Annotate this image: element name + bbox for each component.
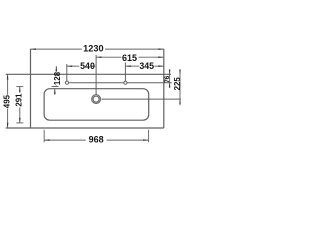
- dim 495 line: [7, 74, 9, 94]
- arrow 76 top outside: [169, 70, 171, 75]
- svg-text:225: 225: [173, 77, 182, 91]
- inner bowl rounded rect: [44, 89, 149, 121]
- arrow 345 left: [125, 65, 130, 67]
- tap hole outer circle: [92, 95, 101, 104]
- svg-text:968: 968: [89, 135, 104, 145]
- basin outer top edge with side extensions: [6, 73, 171, 75]
- basin left edge extended up to 1230 dim: [30, 49, 32, 128]
- basin outer bottom edge with left extension: [6, 127, 164, 129]
- arrow 968 left: [44, 139, 49, 141]
- right hole dropline: [124, 63, 126, 82]
- basin right edge extended up to 1230 dim: [163, 49, 165, 128]
- arrow 291 top: [19, 87, 21, 92]
- tap hole inner circle: [93, 96, 99, 102]
- arrow 540 left: [67, 65, 72, 67]
- arrow 291 bottom: [19, 118, 21, 123]
- right fixing hole: [124, 81, 127, 84]
- dim 291 line: [19, 87, 21, 93]
- dim 345 line: [125, 65, 139, 67]
- arrow 615 left: [96, 56, 101, 58]
- dim 291 top tick: [16, 86, 23, 88]
- svg-text:128: 128: [53, 71, 62, 85]
- arrow 225 bottom outside: [179, 99, 181, 104]
- arrow 615 right: [158, 56, 163, 58]
- arrow 225 top outside: [179, 70, 181, 75]
- svg-text:540: 540: [80, 61, 95, 71]
- arrow 345 right: [158, 65, 163, 67]
- svg-text:291: 291: [15, 93, 24, 107]
- dim 128 line: [55, 66, 57, 72]
- dim 968 left ext: [43, 130, 45, 142]
- dim 76 line: [169, 69, 171, 88]
- svg-text:615: 615: [122, 53, 137, 63]
- svg-text:76: 76: [164, 75, 171, 83]
- dim 1230 line: [31, 48, 82, 50]
- arrow 495 bottom: [7, 123, 9, 128]
- dim 968 right ext: [148, 130, 150, 142]
- svg-text:495: 495: [3, 94, 12, 108]
- dim 615 line: [96, 56, 121, 58]
- arrow 128 below-rim: [54, 89, 56, 94]
- tap-hole horizontal leader line: [102, 98, 181, 100]
- fixing-hole horizontal leader line: [69, 82, 172, 84]
- svg-text:345: 345: [139, 61, 154, 71]
- left hole dropline: [66, 64, 68, 81]
- center dropline to tap hole: [95, 55, 97, 95]
- svg-text:1230: 1230: [83, 43, 103, 53]
- arrow 76 bottom outside: [169, 83, 171, 88]
- dim 128 below-rim arrow line: [54, 89, 56, 95]
- arrow 1230 right: [158, 48, 163, 50]
- dim 968 line: [44, 139, 86, 141]
- left fixing hole: [65, 81, 68, 84]
- arrow 1230 left: [31, 48, 36, 50]
- dim 225 line: [179, 69, 181, 105]
- dim 128 bottom tick: [52, 86, 59, 88]
- dim 540 line: [67, 65, 79, 67]
- arrow 968 right: [143, 139, 148, 141]
- arrow 128 top: [56, 66, 58, 71]
- dim 291 bottom tick: [16, 122, 23, 124]
- arrow 540 right: [91, 65, 96, 67]
- arrow 495 top: [7, 74, 9, 79]
